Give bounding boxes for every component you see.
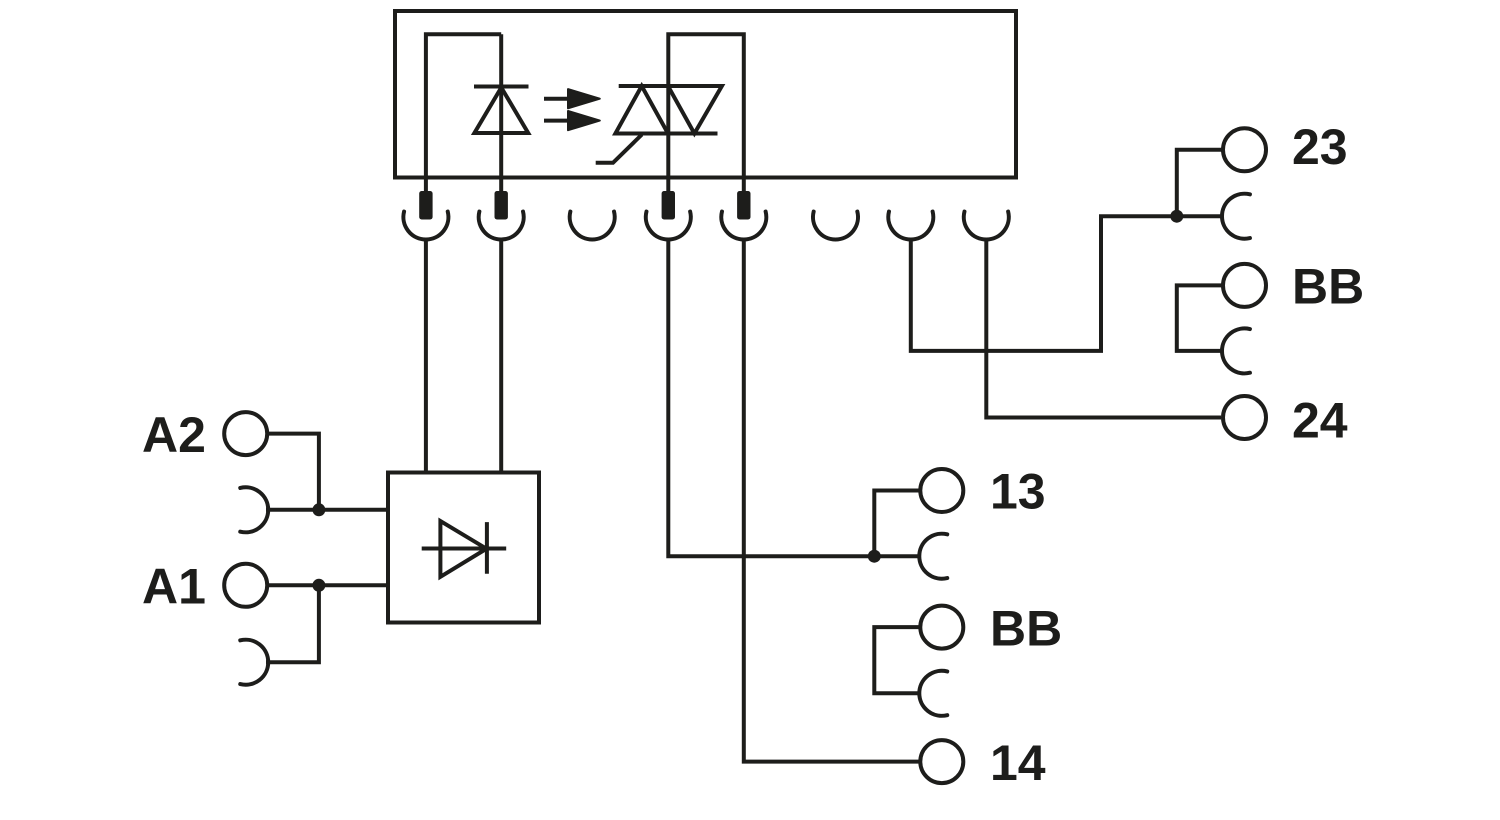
- wire LED input loop: [426, 34, 501, 195]
- light arrow 1: [544, 89, 600, 108]
- wire socket5 to terminal 14: [744, 240, 921, 762]
- triac Q1 left triangle: [615, 86, 668, 134]
- wire socket4 to node 13: [668, 240, 919, 557]
- terminal circle 23: [1223, 128, 1266, 171]
- wire 13 bracket: [874, 491, 920, 557]
- wire socket7 to node 23: [911, 216, 1221, 351]
- socket 2: [479, 212, 524, 240]
- terminal arc A2: [240, 487, 268, 532]
- svg-text:BB: BB: [990, 600, 1062, 656]
- terminal circle 14: [920, 740, 963, 783]
- socket 5: [721, 212, 766, 240]
- wire socket2 to rectifier: [499, 240, 503, 473]
- terminal arc BB mid: [919, 671, 947, 716]
- plug pin 13: [662, 191, 675, 220]
- module outline U1: [395, 11, 1016, 178]
- wire socket8 to terminal 24: [986, 240, 1221, 418]
- terminal circle BB mid: [920, 606, 963, 649]
- terminal arc A1: [240, 640, 268, 685]
- terminal circle BB right: [1223, 264, 1266, 307]
- socket 3: [570, 212, 615, 240]
- terminal arc 13: [919, 534, 947, 579]
- wire A2 circle to node: [267, 434, 319, 510]
- svg-text:24: 24: [1292, 393, 1348, 449]
- terminal circle A2: [224, 412, 267, 455]
- svg-text:13: 13: [990, 464, 1046, 520]
- wire BB right bracket: [1177, 285, 1223, 351]
- diode D1 LED cathode bar: [474, 85, 529, 89]
- triac Q1 top bar: [619, 84, 722, 88]
- wire triac loop: [668, 34, 744, 195]
- terminal circle 13: [920, 469, 963, 512]
- svg-text:A1: A1: [142, 559, 206, 615]
- socket 1: [403, 212, 448, 240]
- triac Q1 right triangle: [668, 86, 722, 134]
- plug pin 14: [737, 191, 750, 220]
- socket 4: [646, 212, 691, 240]
- terminal circle A1: [224, 564, 267, 607]
- wire socket1 to rectifier: [424, 240, 428, 473]
- plug pin A1: [495, 191, 508, 220]
- socket 6: [813, 212, 858, 240]
- socket 7: [888, 212, 933, 240]
- light arrow 2: [544, 111, 600, 130]
- wire BB mid bracket: [874, 627, 920, 693]
- terminal circle 24: [1223, 396, 1266, 439]
- junction node A1: [312, 579, 325, 592]
- junction node A2: [312, 503, 325, 516]
- socket 8: [964, 212, 1009, 240]
- wire 23 bracket: [1177, 150, 1223, 216]
- wire A1 arc to node: [266, 585, 319, 662]
- wire LED cathode lead: [499, 34, 503, 195]
- diode D2 line: [422, 547, 507, 551]
- triac Q1 gate: [596, 135, 642, 163]
- rectifier box: [388, 473, 539, 623]
- svg-text:BB: BB: [1292, 259, 1364, 315]
- junction node 13: [868, 550, 881, 563]
- diode D1 LED triangle: [474, 88, 528, 134]
- triac Q1 bottom bar: [614, 132, 717, 136]
- svg-text:A2: A2: [142, 407, 206, 463]
- terminal arc BB right: [1222, 328, 1250, 373]
- wire A2 node to rectifier: [266, 508, 388, 512]
- junction node 23: [1170, 210, 1183, 223]
- diode D2 triangle: [440, 521, 486, 577]
- wire A1 to rectifier: [267, 583, 388, 587]
- plug pin A2: [419, 191, 432, 220]
- terminal arc 23: [1222, 194, 1250, 239]
- svg-text:14: 14: [990, 735, 1046, 791]
- diode D2 cathode bar: [485, 522, 489, 574]
- svg-text:23: 23: [1292, 119, 1348, 175]
